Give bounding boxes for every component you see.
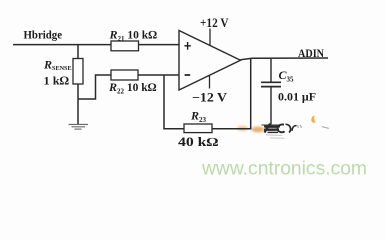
svg-text:1 kΩ: 1 kΩ [44,74,70,88]
power wire +12V [209,29,211,46]
ground [69,124,89,129]
watermark logo yellow mark [311,115,315,123]
wire Rsense to ground [77,84,79,125]
wire top node to Rsense [77,45,79,59]
wire feedback tap down from minus input [163,75,165,129]
svg-text:+12 V: +12 V [200,16,229,30]
resistor Rsense [73,59,83,85]
wire feedback up to output [250,58,252,129]
svg-text:0.01 μF: 0.01 μF [278,91,316,103]
ground under capacitor [262,125,281,130]
wire feedback bottom to R23 [163,128,184,130]
capacitor C35 [261,82,281,86]
watermark logo gray ditto marks [297,125,329,128]
svg-text:R22 10 kΩ: R22 10 kΩ [108,80,157,96]
op-amp minus input marker [185,74,191,76]
svg-text:Hbridge: Hbridge [24,30,63,42]
wire Hbridge to R21 [13,44,111,46]
capacitor C35 bottom lead [270,87,272,125]
watermark logo dark glyphs [264,124,297,133]
svg-text:ADIN: ADIN [298,48,324,60]
resistor R23 [184,124,212,133]
wire R21 to op-amp plus input [139,44,180,46]
watermark logo orange smear [237,126,265,133]
resistor R22 [111,70,138,80]
op-amp U1 [179,31,241,91]
op-amp plus input marker [184,42,190,50]
wire R22 to op-amp minus input [138,74,179,76]
svg-text:www.cntronics.com: www.cntronics.com [201,159,367,180]
wire R23 to output node [212,128,251,130]
svg-text:R21 10 kΩ: R21 10 kΩ [109,28,158,44]
wire Rsense tap to R22 [78,75,111,99]
svg-text:40 kΩ: 40 kΩ [178,135,219,149]
capacitor C35 top lead [270,58,272,82]
resistor R21 [111,41,139,51]
svg-text:−12 V: −12 V [192,90,227,104]
wire op-amp output to ADIN [241,58,329,60]
watermark logo faint underline strokes [266,135,285,138]
power wire -12V [209,75,211,88]
